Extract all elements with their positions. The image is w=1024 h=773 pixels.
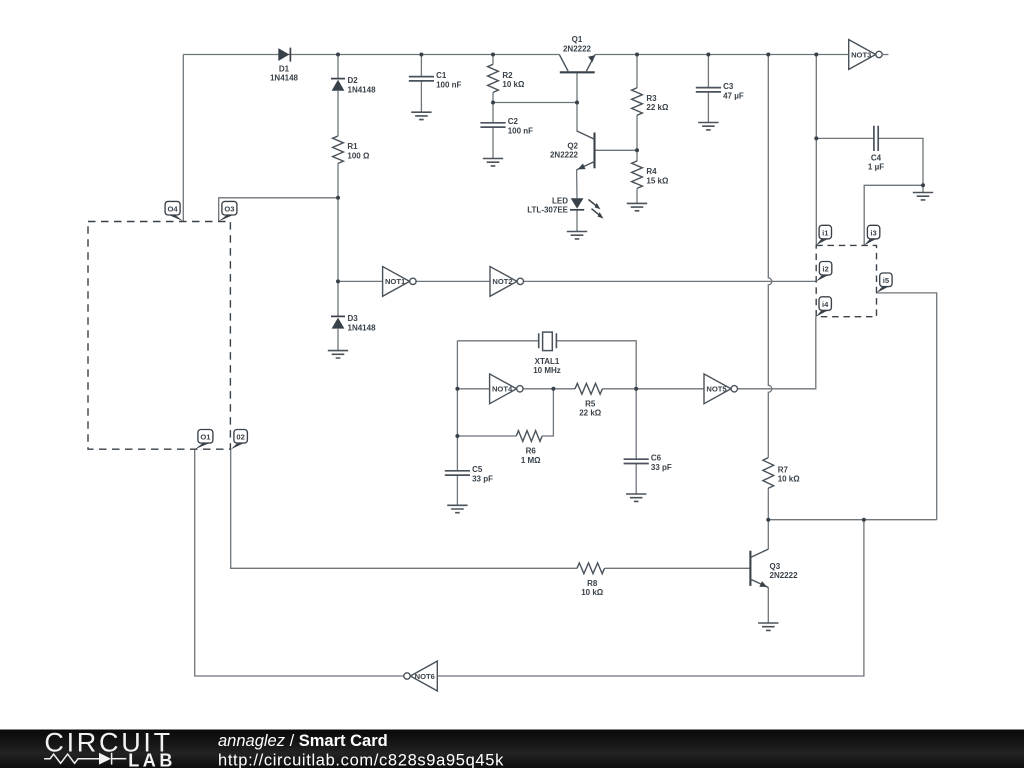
junction: R7 bottom / Q3 collector <box>766 518 770 522</box>
svg-text:NOT1: NOT1 <box>385 277 406 286</box>
wire: R7 bottom lead <box>767 488 769 519</box>
svg-text:1N4148: 1N4148 <box>270 74 299 83</box>
wire: R1 to NOT1 node <box>337 163 339 316</box>
svg-text:Q3: Q3 <box>770 562 781 571</box>
junction: Q1 base node <box>575 101 579 105</box>
connector outline box (right, i1-i5) <box>816 245 876 316</box>
wire: D2/R1/D3 vertical upper <box>337 55 339 79</box>
svg-text:33 pF: 33 pF <box>472 475 493 484</box>
svg-text:NOT6: NOT6 <box>415 672 435 681</box>
wire: C1 to ground <box>420 81 422 112</box>
wire: NOT4 output to R5 <box>523 388 575 390</box>
svg-text:D1: D1 <box>279 64 290 73</box>
wire: oscillator left vertical <box>456 341 458 471</box>
svg-text:O4: O4 <box>168 205 179 214</box>
resistor R8 <box>577 563 605 597</box>
wire: NOT3 input vertical branch x=816 <box>815 55 817 246</box>
wire: NOT4 input <box>457 388 489 390</box>
svg-text:22 kΩ: 22 kΩ <box>579 409 602 418</box>
ground (C6) <box>626 494 646 501</box>
junction: top rail / R3 <box>635 53 639 57</box>
svg-text:R6: R6 <box>526 447 537 456</box>
ground (R4) <box>627 203 647 210</box>
svg-text:10 MHz: 10 MHz <box>533 366 561 375</box>
svg-text:1 µF: 1 µF <box>868 163 884 172</box>
svg-text:i1: i1 <box>822 229 829 238</box>
svg-text:O3: O3 <box>224 205 234 214</box>
wire: C2 top lead <box>492 103 494 123</box>
capacitor C5 <box>445 465 493 483</box>
wire: top rail left segment (VCC net) <box>183 54 559 56</box>
resistor R6 <box>516 431 542 465</box>
capacitor C3 <box>696 82 744 100</box>
svg-text:NOT3: NOT3 <box>851 50 871 59</box>
junction: NOT1 input / D3 <box>336 279 340 283</box>
svg-text:C6: C6 <box>651 454 662 463</box>
wire: NOT1 output to NOT2 input <box>416 280 490 282</box>
resistor R5 <box>575 383 602 417</box>
svg-text:100 Ω: 100 Ω <box>347 151 370 160</box>
svg-text:2N2222: 2N2222 <box>550 150 579 159</box>
junction: top rail / C3 <box>706 53 710 57</box>
svg-text:http://circuitlab.com/c828s9a9: http://circuitlab.com/c828s9a95q45k <box>218 751 504 768</box>
wire: R4 to ground <box>636 188 638 203</box>
svg-text:annaglez / Smart Card: annaglez / Smart Card <box>218 732 388 750</box>
wire: NOT2 output to i2 <box>524 280 817 282</box>
wire: C6 to ground <box>635 464 637 495</box>
junction: Q2 base / divider <box>635 148 639 152</box>
svg-text:NOT2: NOT2 <box>492 277 512 286</box>
svg-text:2N2222: 2N2222 <box>770 571 799 580</box>
svg-text:C5: C5 <box>472 465 483 474</box>
junction: NOT4 input node <box>455 387 459 391</box>
svg-text:22 kΩ: 22 kΩ <box>646 103 669 112</box>
junction: C4 branch on x=816 <box>814 136 818 140</box>
resistor R2 <box>488 64 525 92</box>
wire: C2 to ground <box>492 127 494 158</box>
ground (C5) <box>447 505 467 512</box>
inverter NOT4 <box>490 374 524 404</box>
junction: top rail / C1 <box>419 53 423 57</box>
wire: i3 branch from C4 ground node <box>864 185 923 245</box>
wire: D2 to R1 <box>337 91 339 136</box>
wire: C1 branch <box>420 55 422 77</box>
svg-text:100 nF: 100 nF <box>436 80 461 89</box>
wire: Q3 emitter to ground <box>767 587 769 623</box>
svg-text:NOT4: NOT4 <box>492 385 513 394</box>
capacitor C1 <box>409 71 462 89</box>
CircuitLab logo: resistor + diode glyph <box>44 753 126 765</box>
svg-text:100 nF: 100 nF <box>508 127 533 136</box>
svg-text:D3: D3 <box>348 314 359 323</box>
ground (LED) <box>567 232 587 239</box>
svg-text:D2: D2 <box>348 76 359 85</box>
node i3 flag <box>864 225 880 245</box>
node i4 flag <box>816 297 832 317</box>
svg-text:47 µF: 47 µF <box>723 91 744 100</box>
wire: LED cathode to ground <box>576 210 578 232</box>
svg-text:i5: i5 <box>883 276 890 285</box>
node O4 flag <box>165 201 183 221</box>
ground (C3) <box>698 123 718 130</box>
svg-text:2N2222: 2N2222 <box>563 44 592 53</box>
node i5 flag <box>877 273 893 293</box>
junction: top rail / main bus <box>766 53 770 57</box>
svg-text:R3: R3 <box>646 94 657 103</box>
svg-text:1N4148: 1N4148 <box>348 85 377 94</box>
junction: R6 / C5 node <box>455 434 459 438</box>
crystal XTAL1 <box>533 332 561 375</box>
svg-text:LAB: LAB <box>128 750 176 768</box>
connector outline box (left, O1-O4) <box>88 222 230 450</box>
inverter NOT1 <box>383 267 416 297</box>
svg-text:LED: LED <box>552 196 568 205</box>
svg-text:i4: i4 <box>822 300 829 309</box>
svg-text:R4: R4 <box>646 167 657 176</box>
svg-text:1N4148: 1N4148 <box>348 323 377 332</box>
resistor R7 <box>763 458 800 489</box>
junction: C4 ground node <box>921 183 925 187</box>
ground (C1) <box>411 112 431 119</box>
wire: R2 bottom lead <box>492 92 494 102</box>
junction: NOT4 output / R6 <box>551 387 555 391</box>
svg-text:C3: C3 <box>723 82 734 91</box>
svg-text:1 MΩ: 1 MΩ <box>521 456 541 465</box>
LED LTL-307EE <box>527 196 603 218</box>
junction: R5/C6/NOT5 node <box>634 387 638 391</box>
node i2 flag <box>816 262 832 282</box>
wire: C5 to ground <box>456 475 458 505</box>
wire: C4 right side to ground corner <box>878 138 923 185</box>
node 02 flag <box>231 430 248 450</box>
svg-text:Q2: Q2 <box>567 141 578 150</box>
inverter NOT3 <box>849 40 883 70</box>
svg-text:10 kΩ: 10 kΩ <box>778 475 801 484</box>
junction: top rail / R2 <box>491 53 495 57</box>
wire: C4 ground stub <box>922 185 924 192</box>
capacitor C4 <box>868 126 884 172</box>
svg-text:R2: R2 <box>502 71 513 80</box>
wire: C6 top lead <box>635 389 637 459</box>
svg-text:R5: R5 <box>585 399 596 408</box>
diode D3 <box>331 314 376 332</box>
wire: R5 to C6/NOT5 node <box>602 388 704 390</box>
wire: O2 to R8 <box>231 449 577 568</box>
junction: top rail / D2 branch <box>336 53 340 57</box>
inverter NOT2 <box>490 267 524 297</box>
wire: Q1 base stub / Q2 collector <box>576 72 578 131</box>
diode D1 <box>270 48 299 83</box>
svg-text:10 kΩ: 10 kΩ <box>502 80 525 89</box>
resistor R3 <box>632 88 669 116</box>
svg-text:02: 02 <box>236 433 244 442</box>
junction: NOT6 feed node <box>862 518 866 522</box>
wire: D3 to ground <box>337 329 339 351</box>
wire: main vertical bus x=768 with wire hops <box>768 55 772 458</box>
inverter NOT5 <box>704 374 738 404</box>
wire: C3 to ground <box>707 92 709 123</box>
resistor R1 <box>333 136 370 163</box>
wire: R6 branch down <box>542 389 553 436</box>
inverter NOT6 <box>404 661 438 691</box>
svg-text:i3: i3 <box>870 229 876 238</box>
wire: top rail right segment (Q1 emitter to NOT3) <box>595 54 849 56</box>
wire: C3 branch <box>707 55 709 88</box>
capacitor C6 <box>624 454 672 472</box>
svg-text:15 kΩ: 15 kΩ <box>646 176 669 185</box>
wire: C4 left lead from bus <box>816 137 874 139</box>
svg-text:O1: O1 <box>200 433 211 442</box>
junction: R1 bottom / O3 wire <box>336 196 340 200</box>
svg-text:R8: R8 <box>587 579 598 588</box>
svg-text:33 pF: 33 pF <box>651 463 672 472</box>
ground (D3) <box>328 351 348 358</box>
svg-text:R7: R7 <box>778 465 789 474</box>
node O1 flag <box>195 430 213 450</box>
wire: Q3 collector lead <box>767 520 769 550</box>
resistor R4 <box>632 161 669 188</box>
svg-text:NOT5: NOT5 <box>706 385 727 394</box>
svg-text:C4: C4 <box>871 153 882 162</box>
wire: left vertical down to O4 <box>182 55 184 222</box>
wire: R2 top lead <box>492 55 494 65</box>
wire: i5 riser <box>877 293 937 520</box>
wire: R2/C2 junction to Q1 base <box>493 102 577 104</box>
wire: LED anode lead <box>576 170 578 199</box>
diode D2 <box>331 76 376 94</box>
svg-text:LTL-307EE: LTL-307EE <box>527 206 568 215</box>
ground (C4) <box>913 193 933 200</box>
wire: R3 to R4 junction <box>636 115 638 161</box>
svg-text:C1: C1 <box>436 71 447 80</box>
wire: O3 stub and horizontal to R1 bottom <box>219 198 338 222</box>
transistor Q2 <box>550 131 595 170</box>
wire: Q2 base to R3/R4 divider <box>595 149 638 151</box>
wire: XTAL right lead and down to oscillator node <box>556 341 636 389</box>
node O3 flag <box>219 201 237 221</box>
ground (Q3) <box>758 623 778 630</box>
node i1 flag <box>816 225 832 245</box>
wire: XTAL left lead <box>457 340 538 342</box>
capacitor C2 <box>480 117 533 135</box>
transistor Q3 <box>750 549 798 587</box>
svg-text:R1: R1 <box>347 142 358 151</box>
wire: R7 bottom rail <box>768 519 936 521</box>
svg-text:i2: i2 <box>822 265 828 274</box>
svg-text:C2: C2 <box>508 117 519 126</box>
wire: NOT5 output to i4 riser <box>737 317 816 389</box>
wire: NOT1 input <box>338 280 383 282</box>
transistor Q1 <box>559 35 595 72</box>
svg-text:XTAL1: XTAL1 <box>535 357 560 366</box>
wire: NOT6 input feed down <box>437 520 864 676</box>
junction: R2/C2 node <box>491 101 495 105</box>
wire: R8 to Q3 base <box>605 567 751 569</box>
wire: R6 to left vertical <box>457 435 516 437</box>
svg-text:Q1: Q1 <box>572 35 583 44</box>
ground (C2) <box>483 159 503 166</box>
NOT3 output stub <box>882 54 888 56</box>
svg-text:10 kΩ: 10 kΩ <box>581 588 604 597</box>
wire: R3 top lead <box>636 55 638 88</box>
wire: NOT6 output to O1 <box>195 449 404 676</box>
junction: top rail / NOT3 branch <box>814 53 818 57</box>
